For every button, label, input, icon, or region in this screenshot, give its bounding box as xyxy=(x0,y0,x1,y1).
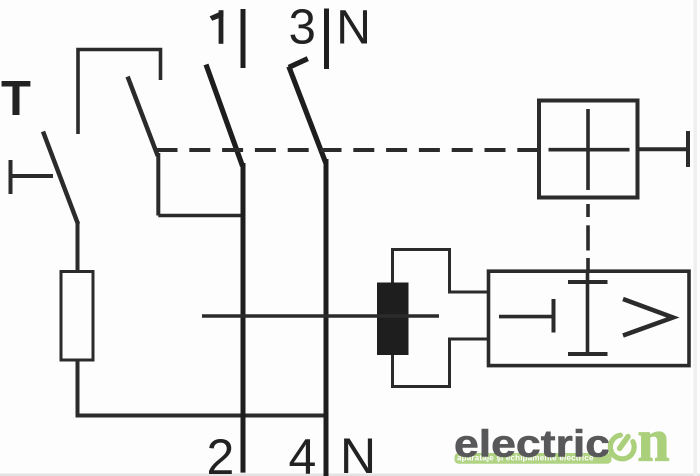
bottom edge shading xyxy=(0,474,700,476)
svg-text:3: 3 xyxy=(289,0,316,54)
linkage switch blade xyxy=(128,77,158,156)
relay threshold symbol > xyxy=(623,299,673,336)
pole 1 main vertical wire xyxy=(241,163,246,473)
wire blade to resistor xyxy=(76,221,80,272)
mechanism cross vertical xyxy=(586,109,590,190)
logo power icon ring xyxy=(610,435,634,459)
mechanism cross horizontal xyxy=(549,148,630,152)
relay coil input wire xyxy=(499,315,553,319)
pole N top terminal bar xyxy=(324,9,329,70)
current transformer frame xyxy=(393,250,488,387)
svg-text:n: n xyxy=(638,408,670,474)
svg-text:electric: electric xyxy=(454,424,610,466)
current transformer core (black) xyxy=(377,283,409,356)
linkage horizontal wire to pole 1 xyxy=(158,214,242,218)
test button fixed contact wire xyxy=(9,174,53,178)
trip relay box xyxy=(489,271,690,365)
terminal label 1 xyxy=(219,10,224,44)
test button switch blade xyxy=(43,132,78,225)
test button terminal tick xyxy=(9,160,13,194)
relay armature vertical xyxy=(586,272,590,355)
relay coil input bar xyxy=(552,299,556,333)
svg-text:N: N xyxy=(340,428,376,476)
relay armature top bar xyxy=(568,280,608,284)
main wire through transformer xyxy=(202,314,439,318)
resistor R (test resistor) xyxy=(61,272,93,361)
mechanism box (square with cross) xyxy=(539,101,638,198)
dashed mechanism line vertical xyxy=(586,204,590,217)
logo green band xyxy=(455,453,612,464)
right terminal tick xyxy=(686,131,690,167)
pole 1 top terminal bar xyxy=(241,9,246,68)
pole 1 switch blade xyxy=(206,65,243,167)
relay armature bottom bar xyxy=(568,352,608,356)
logo power icon bar xyxy=(620,437,628,449)
wire mechanism box to right terminal xyxy=(639,147,688,151)
wire bottom horizontal to pole N xyxy=(76,414,329,418)
pole N switch blade xyxy=(289,67,326,164)
pole N blade hook tip xyxy=(289,59,308,68)
mechanical linkage bracket xyxy=(78,50,161,135)
svg-text:T: T xyxy=(1,72,31,126)
pole N main vertical wire xyxy=(324,159,329,476)
right edge shading xyxy=(694,0,698,476)
svg-text:N: N xyxy=(336,1,371,54)
dashed mechanism line horizontal xyxy=(157,148,538,152)
svg-text:4: 4 xyxy=(289,429,317,476)
wire resistor to bottom xyxy=(76,360,80,416)
linkage vertical wire xyxy=(156,153,160,216)
svg-text:2: 2 xyxy=(207,429,235,476)
logo electricon xyxy=(454,408,670,474)
